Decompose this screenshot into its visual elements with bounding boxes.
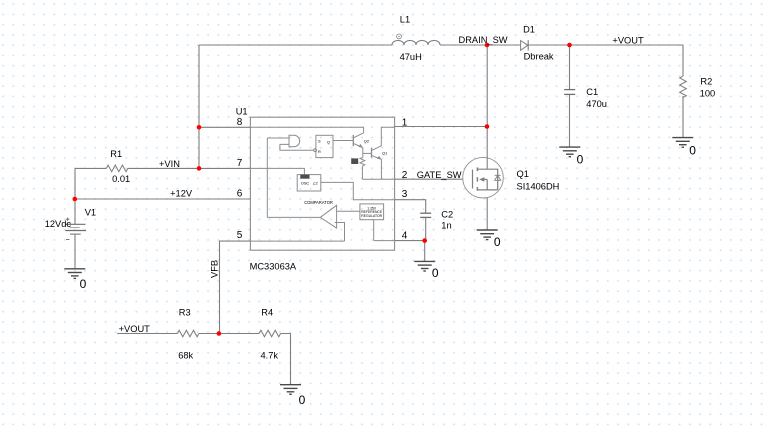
svg-text:Q1: Q1 — [382, 151, 387, 156]
svg-text:GATE_SW: GATE_SW — [417, 170, 462, 180]
svg-text:68k: 68k — [178, 351, 193, 361]
svg-text:47uH: 47uH — [400, 52, 422, 62]
svg-text:Q2: Q2 — [364, 138, 369, 143]
svg-text:0: 0 — [577, 153, 584, 167]
svg-text:0: 0 — [432, 266, 439, 280]
svg-text:Q1: Q1 — [517, 169, 529, 179]
svg-text:REGULATOR: REGULATOR — [361, 214, 382, 218]
svg-text:+12V: +12V — [170, 189, 193, 199]
svg-text:V1: V1 — [85, 208, 96, 218]
svg-text:+VIN: +VIN — [159, 159, 180, 169]
svg-text:7: 7 — [237, 158, 243, 169]
svg-text:1n: 1n — [441, 221, 451, 231]
svg-text:L1: L1 — [400, 14, 410, 24]
svg-text:1: 1 — [402, 118, 408, 129]
svg-text:0.01: 0.01 — [112, 174, 130, 184]
svg-text:D1: D1 — [523, 25, 535, 35]
svg-text:U1: U1 — [236, 107, 248, 117]
svg-text:OSC: OSC — [301, 180, 310, 185]
svg-text:R: R — [318, 149, 321, 154]
svg-text:2: 2 — [402, 170, 408, 181]
svg-text:5: 5 — [237, 230, 243, 241]
svg-text:0: 0 — [494, 235, 501, 249]
svg-text:4.7k: 4.7k — [261, 351, 279, 361]
svg-text:Q: Q — [327, 139, 330, 144]
svg-text:R4: R4 — [261, 308, 273, 318]
svg-text:0: 0 — [299, 393, 306, 407]
svg-text:100: 100 — [700, 89, 716, 99]
svg-text:+VOUT: +VOUT — [612, 35, 644, 45]
svg-text:COMPARATOR: COMPARATOR — [304, 200, 333, 205]
svg-text:C1: C1 — [586, 87, 598, 97]
svg-text:0: 0 — [80, 277, 87, 291]
svg-text:CT: CT — [313, 181, 319, 186]
svg-text:S: S — [318, 138, 321, 143]
svg-text:MC33063A: MC33063A — [250, 262, 297, 272]
svg-text:SI1406DH: SI1406DH — [517, 182, 560, 192]
svg-text:12Vdc: 12Vdc — [45, 219, 72, 229]
svg-text:DRAIN_SW: DRAIN_SW — [459, 35, 508, 45]
svg-text:Dbreak: Dbreak — [524, 52, 554, 62]
svg-text:R2: R2 — [700, 77, 712, 87]
svg-text:470u: 470u — [586, 99, 607, 109]
svg-text:4: 4 — [402, 230, 408, 241]
svg-text:VFB: VFB — [209, 260, 219, 278]
svg-text:0: 0 — [689, 144, 696, 158]
svg-text:6: 6 — [237, 189, 243, 200]
svg-text:C2: C2 — [441, 210, 453, 220]
svg-text:R3: R3 — [179, 308, 191, 318]
svg-text:R1: R1 — [110, 149, 122, 159]
svg-text:+VOUT: +VOUT — [119, 324, 151, 334]
svg-text:3: 3 — [402, 189, 408, 200]
svg-text:8: 8 — [237, 117, 243, 128]
